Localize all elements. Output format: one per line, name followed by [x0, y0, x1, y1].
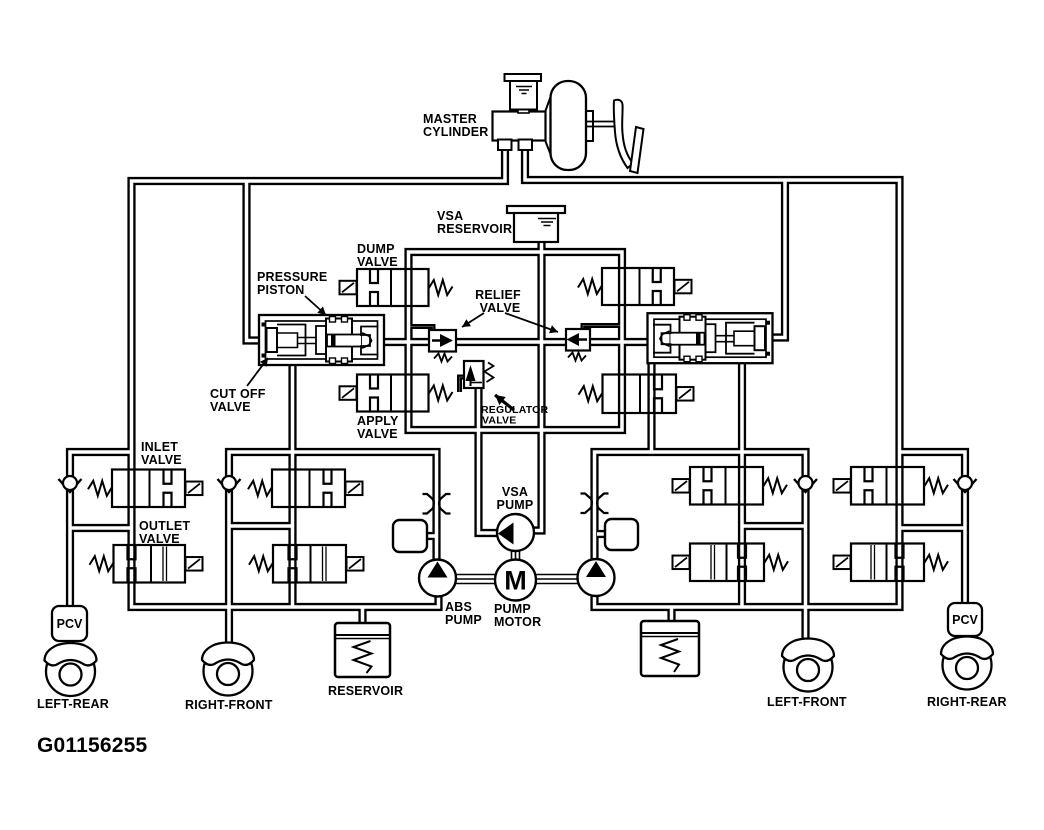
svg-text:PUMP: PUMP — [497, 498, 534, 512]
ABS reservoir (left) — [335, 623, 390, 677]
inlet valve RIGHT-FRONT — [248, 470, 363, 508]
inlet valve RIGHT-REAR — [834, 467, 949, 505]
wheel RIGHT-FRONT — [202, 643, 254, 696]
check valve RF — [218, 476, 241, 492]
wheel LEFT-FRONT — [782, 639, 834, 692]
svg-text:G01156255: G01156255 — [37, 734, 148, 757]
wire MC-right main loop (channel) — [525, 149, 900, 607]
wire RR wheel stub (channel) — [963, 633, 967, 646]
wire piston-R link (channel) — [650, 361, 654, 452]
svg-text:PISTON: PISTON — [257, 283, 305, 297]
svg-text:LEFT-FRONT: LEFT-FRONT — [767, 695, 847, 709]
svg-text:VALVE: VALVE — [357, 427, 398, 441]
wire regulator pipe (channel) — [479, 386, 509, 533]
svg-text:PUMP: PUMP — [445, 613, 482, 627]
master cylinder reservoir cap — [505, 74, 542, 81]
pointer relief valve right — [505, 313, 558, 332]
wire relief line (channel) — [380, 340, 652, 344]
svg-text:VALVE: VALVE — [482, 415, 516, 427]
inlet valve LEFT-REAR — [88, 470, 203, 508]
brake pedal pad — [630, 127, 644, 173]
master cylinder booster bracket — [579, 111, 593, 141]
svg-text:MOTOR: MOTOR — [494, 615, 541, 629]
wire circuit2 vertical (channel) — [291, 362, 295, 607]
orifice (left) — [423, 494, 451, 514]
svg-text:RESERVOIR: RESERVOIR — [328, 684, 403, 698]
svg-text:PUMP: PUMP — [494, 602, 531, 616]
pointer regulator valve — [495, 395, 514, 410]
VSA reservoir body — [514, 213, 558, 243]
svg-text:LEFT-REAR: LEFT-REAR — [37, 697, 109, 711]
outlet valve LEFT-FRONT — [673, 544, 789, 582]
svg-text:CYLINDER: CYLINDER — [423, 125, 489, 139]
wire MC-right main loop (outline) — [525, 149, 900, 607]
wire link2 (outline) — [229, 522, 293, 530]
wire regulator pipe (outline) — [479, 386, 509, 533]
wire reservoir-L stub (channel) — [361, 607, 365, 626]
pressure piston assembly (left) with cut-off valve — [259, 315, 384, 365]
svg-text:VALVE: VALVE — [210, 400, 251, 414]
wire damper-L stub (channel) — [424, 534, 437, 538]
wire piston-R feed (channel) — [763, 180, 785, 338]
master cylinder body — [493, 112, 546, 141]
wire regulator pilot (outline) — [460, 377, 466, 392]
wire piston-L feed (channel) — [247, 181, 269, 341]
wire left frame (channel) — [229, 452, 437, 649]
svg-text:PCV: PCV — [57, 617, 83, 631]
wire relief-L pilot (channel) — [410, 327, 433, 333]
wire link4 (channel) — [900, 526, 966, 530]
dump valve (left) — [340, 269, 453, 306]
pump motor — [495, 560, 536, 601]
wire RR wheel stub (outline) — [961, 633, 969, 646]
wire circuit3 vertical (channel) — [740, 361, 744, 607]
svg-text:APPLY: APPLY — [357, 414, 399, 428]
proportioning control valve (left) — [52, 606, 87, 641]
wire left frame (outline) — [229, 452, 437, 649]
master cylinder reservoir — [510, 81, 537, 110]
svg-text:RESERVOIR: RESERVOIR — [437, 222, 512, 236]
wire damper-L stub (outline) — [424, 532, 437, 540]
check valve LR — [59, 476, 82, 492]
wire check4 branch (channel) — [900, 452, 966, 606]
svg-text:OUTLET: OUTLET — [139, 519, 190, 533]
check valve RR — [954, 476, 977, 492]
apply valve (right) — [579, 375, 694, 414]
inlet valve LEFT-FRONT — [673, 467, 788, 505]
wire relief line (outline) — [380, 338, 652, 346]
svg-text:RIGHT-REAR: RIGHT-REAR — [927, 695, 1007, 709]
wheel LEFT-REAR — [45, 643, 97, 696]
VSA pump — [497, 514, 534, 551]
brake booster — [551, 81, 587, 170]
wire check1 branch (channel) — [70, 452, 132, 609]
svg-text:RELIEF: RELIEF — [475, 288, 521, 302]
wire MC-left main loop (channel) — [132, 149, 506, 607]
wire right frame (channel) — [595, 452, 806, 646]
svg-text:VSA: VSA — [502, 485, 528, 499]
svg-text:PCV: PCV — [952, 613, 978, 627]
wire circuit3 vertical (outline) — [738, 361, 746, 607]
svg-text:VSA: VSA — [437, 209, 463, 223]
wire link3 (outline) — [742, 522, 806, 530]
wheel RIGHT-REAR — [941, 637, 993, 690]
wire link1 (outline) — [70, 524, 132, 532]
master cylinder outlet port A — [498, 140, 512, 151]
proportioning control valve (right) — [948, 603, 982, 636]
ABS pump (left) — [419, 560, 456, 597]
damper (left) — [393, 520, 427, 552]
master cylinder reservoir neck — [518, 108, 529, 113]
pointer pressure piston — [305, 296, 326, 315]
check valve LF — [794, 476, 817, 492]
ABS pump (right) — [578, 559, 615, 596]
pressure piston assembly (right) with cut-off valve — [648, 313, 773, 363]
wire link4 (outline) — [900, 524, 966, 532]
wire circuit2 vertical (outline) — [288, 362, 296, 607]
wire reservoir-R stub (channel) — [670, 607, 674, 624]
pump shafts — [452, 549, 580, 584]
ABS reservoir (right) — [641, 621, 699, 676]
svg-text:VALVE: VALVE — [139, 532, 180, 546]
pointer cut off valve — [247, 358, 268, 386]
VSA reservoir level marks — [538, 219, 556, 226]
wire relief-R pilot (outline) — [583, 326, 621, 332]
outlet valve RIGHT-REAR — [834, 544, 949, 582]
relief valve (left) — [429, 330, 456, 362]
wire reservoir-L stub (outline) — [358, 607, 366, 626]
relief valve (right) — [566, 329, 590, 361]
wire VSA reservoir pipe (outline) — [523, 240, 542, 531]
wire LR wheel stub (channel) — [68, 638, 72, 651]
wire VSA reservoir pipe (channel) — [523, 240, 542, 531]
wire central frame (outline) — [409, 252, 623, 430]
wire relief-L pilot (outline) — [410, 327, 433, 333]
svg-text:RIGHT-FRONT: RIGHT-FRONT — [185, 698, 273, 712]
wire check4 branch (outline) — [900, 452, 966, 606]
master cylinder booster cone — [545, 93, 552, 158]
svg-text:ABS: ABS — [445, 600, 472, 614]
wire piston-R feed (outline) — [763, 180, 785, 338]
svg-text:DUMP: DUMP — [357, 242, 395, 256]
fluid level marks — [516, 87, 532, 94]
wire check1 branch (outline) — [70, 452, 132, 609]
svg-text:VALVE: VALVE — [480, 301, 521, 315]
apply valve (left) — [340, 375, 453, 412]
orifice (right) — [581, 494, 609, 514]
master cylinder outlet port B — [519, 140, 533, 151]
pushrod — [585, 122, 614, 127]
wire MC-left main loop (outline) — [132, 149, 506, 607]
wire right frame (outline) — [595, 452, 806, 646]
wire link2 (channel) — [229, 524, 293, 528]
wire reservoir-R stub (outline) — [667, 607, 675, 624]
dump valve (right) — [578, 268, 692, 305]
svg-text:VALVE: VALVE — [141, 453, 182, 467]
wire damper-R stub (channel) — [597, 532, 610, 536]
wire central frame (channel) — [409, 252, 623, 430]
svg-text:INLET: INLET — [141, 440, 178, 454]
wire damper-R stub (outline) — [597, 530, 610, 538]
damper (right) — [605, 519, 638, 550]
svg-text:M: M — [504, 566, 527, 596]
wire relief-R pilot (channel) — [583, 326, 621, 332]
svg-text:VALVE: VALVE — [357, 255, 398, 269]
wire piston-L feed (outline) — [247, 181, 269, 341]
wire link3 (channel) — [742, 524, 806, 528]
svg-text:MASTER: MASTER — [423, 112, 477, 126]
brake pedal arm — [614, 100, 633, 168]
pointer relief valve left — [462, 313, 484, 327]
svg-text:PRESSURE: PRESSURE — [257, 270, 327, 284]
outlet valve RIGHT-FRONT — [249, 545, 364, 583]
wire link1 (channel) — [70, 526, 132, 530]
VSA reservoir cap — [507, 206, 565, 213]
wire piston-R link (outline) — [647, 361, 655, 452]
wire regulator pilot (channel) — [460, 377, 466, 392]
outlet valve LEFT-REAR — [90, 545, 203, 583]
svg-text:CUT OFF: CUT OFF — [210, 387, 266, 401]
regulator valve — [464, 361, 494, 388]
wire LR wheel stub (outline) — [66, 638, 74, 651]
